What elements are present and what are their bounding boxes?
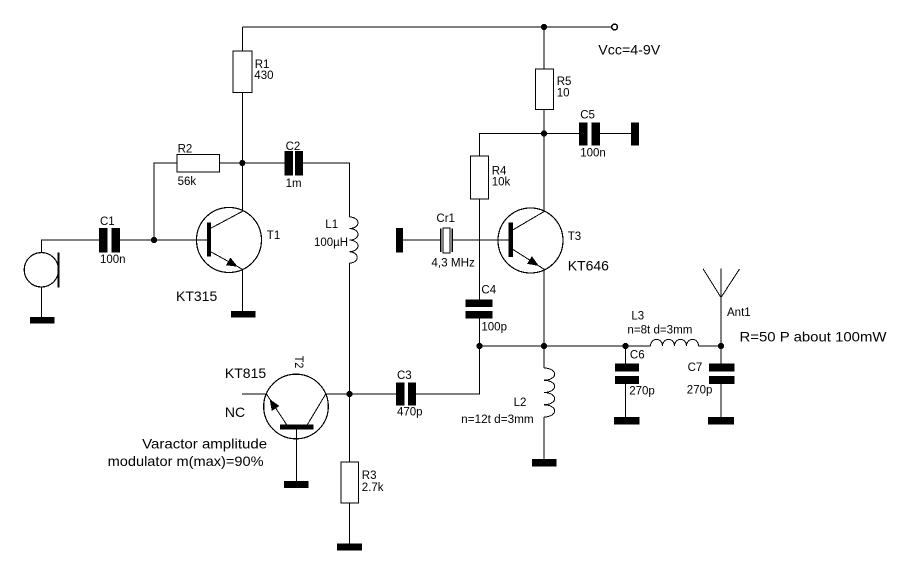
ground below C6 <box>614 417 640 424</box>
antenna Ant1 <box>720 269 722 346</box>
svg-text:270p: 270p <box>687 385 713 397</box>
wire junction to R3 <box>349 394 351 462</box>
svg-text:L1: L1 <box>325 219 338 231</box>
svg-text:C2: C2 <box>286 141 301 153</box>
svg-text:1m: 1m <box>286 178 302 190</box>
svg-text:100n: 100n <box>580 148 606 160</box>
wire L2 top lead <box>543 346 545 368</box>
wire C6 bottom lead <box>625 384 627 417</box>
wire junction to C2 <box>243 162 285 164</box>
svg-text:C3: C3 <box>397 370 412 382</box>
svg-text:R3: R3 <box>362 470 377 482</box>
svg-text:KT815: KT815 <box>225 365 266 381</box>
svg-text:430: 430 <box>254 70 273 82</box>
svg-text:L2: L2 <box>514 397 527 409</box>
svg-text:C5: C5 <box>580 110 595 122</box>
ground below L2 <box>532 459 557 466</box>
wire C7 bottom lead <box>720 384 722 417</box>
wire R5 top lead <box>543 27 545 69</box>
svg-text:4,3 MHz: 4,3 MHz <box>431 258 475 270</box>
wire R2 left lead <box>154 163 177 237</box>
resistor R2 <box>177 155 220 173</box>
svg-text:100p: 100p <box>481 322 507 334</box>
wire R4 top to R5 node <box>480 134 545 157</box>
capacitor C4 <box>466 300 493 307</box>
svg-text:n=8t d=3mm: n=8t d=3mm <box>627 325 692 337</box>
svg-text:KT315: KT315 <box>176 288 217 304</box>
svg-text:R5: R5 <box>557 76 572 88</box>
capacitor C2 <box>285 151 294 176</box>
wire T2 collector to junction <box>326 393 350 395</box>
svg-text:NC: NC <box>225 404 245 420</box>
svg-text:C6: C6 <box>630 350 645 362</box>
wire output bus y346 <box>480 345 651 347</box>
wire C2 to L1 <box>303 163 350 217</box>
capacitor C1 <box>99 228 108 253</box>
wire L3 to antenna node <box>699 345 722 347</box>
node T3 emitter junction <box>541 343 547 349</box>
node C1/R2/T1 base junction <box>151 237 157 243</box>
wire C4 top lead to R4 <box>479 199 481 300</box>
wire mic bottom lead <box>40 287 42 317</box>
wire junction to C5 <box>544 133 579 135</box>
svg-text:KT646: KT646 <box>568 258 609 274</box>
wire T1 emitter lead <box>242 269 244 311</box>
svg-text:C1: C1 <box>100 216 115 228</box>
resistor R3 <box>341 462 359 503</box>
ground below mic <box>30 317 55 324</box>
svg-text:56k: 56k <box>178 176 197 188</box>
wire C3 to output node <box>416 346 480 394</box>
svg-text:Varactor amplitude: Varactor amplitude <box>142 436 267 452</box>
wire Cr1 to T3 base <box>453 239 509 241</box>
node supply junction <box>541 24 547 30</box>
svg-text:470p: 470p <box>397 407 423 419</box>
wire R2 right lead <box>220 162 243 164</box>
wire L2 bottom lead <box>543 417 545 459</box>
svg-text:Ant1: Ant1 <box>727 307 751 319</box>
ground below R3 <box>337 544 362 551</box>
svg-text:L3: L3 <box>631 311 644 323</box>
svg-text:R2: R2 <box>178 144 193 156</box>
wire T2 base lead <box>296 430 298 482</box>
resistor R4 <box>471 156 489 199</box>
wire T2 emitter stub NC <box>242 393 267 395</box>
wire R1 bottom to T1 collector <box>242 93 244 212</box>
capacitor C6 <box>615 364 639 372</box>
inductor L2 <box>544 368 555 417</box>
node R5/R4/C5 junction <box>541 130 547 136</box>
wire C4 bottom lead <box>479 319 481 347</box>
wire junction to C3 <box>350 393 397 395</box>
wire top supply rail <box>243 26 612 28</box>
ground below C7 <box>708 417 734 425</box>
svg-text:C7: C7 <box>688 362 703 374</box>
transistor T3 <box>498 208 563 273</box>
ground below T2 <box>284 481 309 488</box>
wire R1 top lead <box>242 27 244 51</box>
node T2/L1/C3/R3 junction <box>346 391 352 397</box>
wire C7 top lead <box>720 346 722 364</box>
svg-text:T3: T3 <box>568 231 581 243</box>
svg-text:n=12t d=3mm: n=12t d=3mm <box>461 414 534 426</box>
wire T3 emitter lead <box>543 270 545 347</box>
terminal bar right of C5 <box>631 123 639 146</box>
svg-text:Cr1: Cr1 <box>436 213 455 225</box>
svg-text:T2: T2 <box>292 356 304 369</box>
capacitor C3 <box>396 383 404 406</box>
wire C6 top lead <box>625 346 627 364</box>
node R1/R2/C2 junction <box>239 160 245 166</box>
wire C1 to T1 base <box>120 239 207 241</box>
wire L1 bottom to T2 node <box>349 263 351 394</box>
wire mic top to C1 <box>41 240 99 253</box>
svg-text:270p: 270p <box>629 386 655 398</box>
node antenna/C7 junction <box>718 343 724 349</box>
svg-text:100n: 100n <box>100 254 126 266</box>
crystal Cr1 <box>440 229 442 253</box>
inductor L3 <box>651 339 699 346</box>
resistor R1 <box>233 51 252 93</box>
svg-text:10k: 10k <box>492 177 511 189</box>
node C6 junction <box>622 343 628 349</box>
svg-text:100µH: 100µH <box>314 237 348 249</box>
svg-text:modulator m(max)=90%: modulator m(max)=90% <box>108 453 264 469</box>
wire Cr1 left lead <box>403 239 440 241</box>
svg-text:T1: T1 <box>267 230 280 242</box>
microphone mic <box>24 253 58 287</box>
svg-text:Vcc=4-9V: Vcc=4-9V <box>598 42 661 58</box>
terminal bar left of Cr1 <box>396 228 403 253</box>
svg-text:10: 10 <box>557 88 570 100</box>
Vcc terminal <box>612 24 618 30</box>
svg-text:C4: C4 <box>481 285 496 297</box>
svg-text:R=50 P about 100mW: R=50 P about 100mW <box>740 329 888 345</box>
wire R5 bottom to T3 collector <box>543 110 545 212</box>
transistor T2 <box>264 374 329 439</box>
svg-text:2.7k: 2.7k <box>362 482 384 494</box>
resistor R5 <box>536 69 554 110</box>
inductor L1 <box>350 217 359 263</box>
capacitor C7 <box>709 364 735 372</box>
wire R3 bottom lead <box>349 503 351 544</box>
capacitor C5 <box>579 123 588 146</box>
ground below T1 <box>231 311 256 318</box>
transistor T1 <box>197 208 262 273</box>
wire C5 to end terminal <box>600 133 631 135</box>
node C3/C4 output junction <box>476 343 482 349</box>
